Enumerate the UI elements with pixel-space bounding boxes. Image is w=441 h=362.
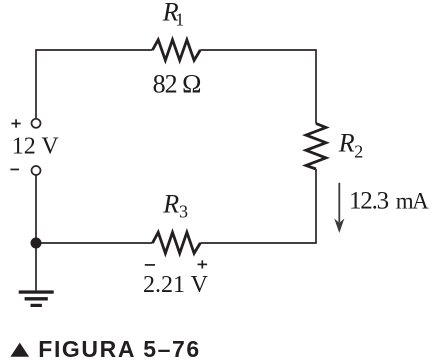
R3 polarity - xyxy=(145,264,155,266)
label R2 xyxy=(338,129,364,162)
source polarity - xyxy=(10,169,19,171)
label R1 xyxy=(162,0,185,30)
svg-text:2.21 V: 2.21 V xyxy=(143,272,209,298)
svg-text:R: R xyxy=(162,190,179,219)
terminal: source - (open circle) xyxy=(32,166,41,175)
source polarity + xyxy=(11,119,20,127)
value label 12.3 mA xyxy=(349,188,429,215)
svg-text:R: R xyxy=(338,129,355,158)
resistor R2 (zigzag, right side vertical) xyxy=(306,124,326,170)
R3 polarity + xyxy=(198,260,208,268)
svg-text:12.3: 12.3 xyxy=(349,188,389,215)
wire: left vertical + top-left horizontal to R1 xyxy=(36,50,153,119)
wire: bottom-left horizontal from R3 to junction xyxy=(36,242,153,244)
wire: source minus terminal down through junction to ground stem xyxy=(35,175,37,290)
wire: top-right horizontal + right vertical down to R2 xyxy=(200,50,316,124)
svg-text:FIGURA 5–76: FIGURA 5–76 xyxy=(38,336,200,362)
svg-text:1: 1 xyxy=(175,10,184,30)
terminal: source + (open circle) xyxy=(32,119,41,128)
junction node (filled dot) xyxy=(31,238,42,249)
svg-text:82 Ω: 82 Ω xyxy=(153,70,201,99)
svg-text:3: 3 xyxy=(179,201,188,221)
label R3 xyxy=(162,190,188,222)
svg-text:12 V: 12 V xyxy=(12,133,60,159)
ground symbol xyxy=(19,290,54,307)
resistor R1 (zigzag, top) xyxy=(153,40,201,61)
wire: right vertical below R2 + bottom-right horizontal to R3 xyxy=(200,169,316,243)
svg-text:mA: mA xyxy=(396,189,429,214)
current arrow (12.3 mA direction) xyxy=(334,183,344,233)
figure caption triangle xyxy=(10,343,29,357)
resistor R3 (zigzag, bottom) xyxy=(153,232,201,253)
svg-text:2: 2 xyxy=(354,142,363,162)
